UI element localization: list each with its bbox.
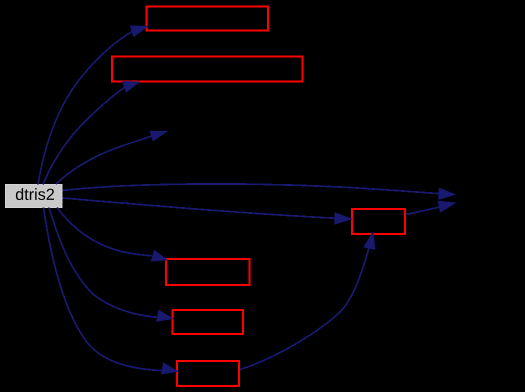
node2 red box (top) <box>147 7 268 31</box>
node3 red box (second) <box>112 56 302 81</box>
edge dtris2 to node5 (hidden right node) <box>63 184 456 199</box>
edge dtris2 to node2 (top box) <box>38 26 147 185</box>
node8 red box (fourth, lower) <box>172 310 243 334</box>
edge dtris2 to node8 (fourth box) <box>49 208 173 322</box>
edge dtris2 to node3 (second box) <box>43 82 139 185</box>
edge dtris2 to node6 (small box) <box>63 198 352 224</box>
node9 red box (fifth, bottom) <box>177 361 239 386</box>
node7 red box (third, lower) <box>166 259 249 285</box>
edge dtris2 to node9 (fifth box) <box>44 208 178 374</box>
node6 red box (small middle-right) <box>352 209 405 234</box>
edge dtris2 to node4 (hidden node) <box>56 131 167 184</box>
edge dtris2 to node7 (third box) <box>57 208 167 262</box>
edge node6 to node5 (hidden right node) <box>406 201 455 214</box>
node1 dtris2 (grey filled node) <box>6 185 62 208</box>
edge node9 to node6 <box>240 233 375 370</box>
